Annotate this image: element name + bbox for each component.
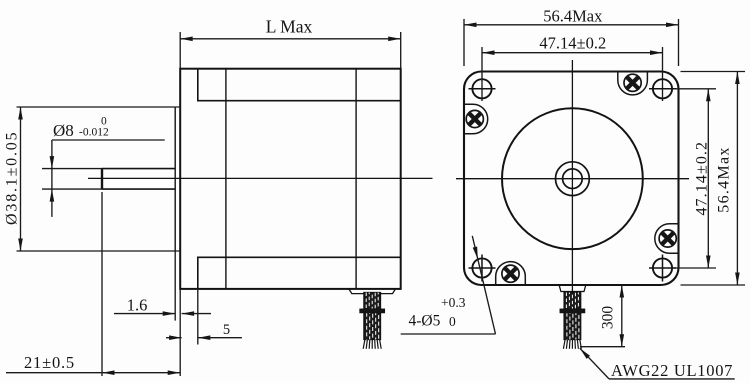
side view: end-cap boundary line rear [355,69,357,289]
side view: pilot boss slab [175,107,180,251]
front view: vertical centerline [571,60,573,292]
front view: corner screw boss+head top-left [464,104,488,134]
svg-text:L Max: L Max [266,17,313,37]
side view: end-cap boundary line front [225,69,227,289]
dim 56.4Max right [681,72,746,286]
front view: shaft boss circle [556,162,590,196]
front view: corner screw boss+head bottom-left [496,262,526,285]
side view: shaft centerline [88,177,433,179]
svg-text:4-Ø5: 4-Ø5 [409,313,441,330]
side view: wire grommet [349,289,396,294]
side view: motor body outline [180,69,401,289]
front view: corner screw boss+head top-right [618,72,648,95]
front view: horizontal centerline [456,178,689,180]
svg-text:5: 5 [223,322,230,338]
front view: mounting hole top-left [469,79,496,98]
svg-text:-0.012: -0.012 [79,126,109,138]
side view: shaft [102,169,175,190]
dim 5 flange [166,289,242,345]
side view: front end-cap chamfer step top [198,69,401,101]
svg-text:AWG22 UL1007: AWG22 UL1007 [611,361,733,380]
svg-text:47.14±0.2: 47.14±0.2 [694,141,711,216]
front view: wire grommet [559,285,586,291]
dim Dia 38.1 [17,107,176,251]
dim 21 shaft length [6,192,180,376]
svg-text:21±0.5: 21±0.5 [24,353,75,372]
dim 47.14 right [674,89,716,268]
svg-text:56.4Max: 56.4Max [543,7,603,26]
front view: mounting hole bottom-right [649,255,676,282]
leader 4-Dia5 [401,236,496,334]
svg-text:0: 0 [101,116,107,128]
svg-text:Ø8: Ø8 [53,121,74,140]
front view: corner screw boss+head bottom-right [655,224,679,254]
front view: pilot circle [502,108,643,249]
front view: mounting hole top-right [649,79,676,98]
leader AWG22 [580,348,735,379]
dim 47.14 top [482,47,663,101]
front view: square flange outline [464,72,679,286]
svg-text:0: 0 [449,314,456,329]
front view: wire bundle [560,293,584,349]
svg-text:56.4Max: 56.4Max [716,146,733,212]
svg-text:1.6: 1.6 [127,296,148,315]
dim 56.4Max top [464,19,679,66]
dim 1.6 boss height [114,251,211,321]
front view: shaft circle [563,169,583,189]
svg-text:300: 300 [600,306,617,330]
side view: wire bundle [360,293,384,349]
front view: mounting hole bottom-left [469,255,496,282]
svg-text:+0.3: +0.3 [441,295,466,310]
dim Dia 8 shaft [42,140,165,217]
svg-text:47.14±0.2: 47.14±0.2 [539,34,606,53]
svg-text:Ø38.1±0.05: Ø38.1±0.05 [3,131,20,225]
dim 300 wire length [580,285,745,347]
dim L Max [180,32,401,69]
side view: front end-cap chamfer step bottom [198,257,401,289]
